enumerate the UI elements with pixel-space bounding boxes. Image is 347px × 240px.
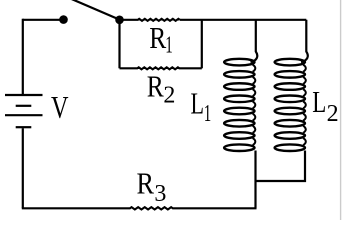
node A junction dot (switch left terminal) xyxy=(59,15,68,24)
wire node B vertical down to R2 branch xyxy=(118,20,120,69)
wire R2 branch to right vertical of parallel loop xyxy=(180,67,202,69)
battery plate long xyxy=(5,114,43,116)
battery V plates xyxy=(5,95,43,127)
wire: stroke group xyxy=(22,0,308,209)
battery plate short bottom xyxy=(16,126,32,128)
battery plate short xyxy=(16,105,32,107)
svg-text:R: R xyxy=(147,69,164,104)
svg-text:R: R xyxy=(149,20,166,55)
inductor L2 coil xyxy=(275,59,306,151)
svg-text:2: 2 xyxy=(163,83,175,109)
resistor R2 zigzag xyxy=(137,67,180,69)
inductor L1 coil xyxy=(224,59,255,151)
svg-text:1: 1 xyxy=(204,101,212,127)
wire L2 bottom lead and horizontal joining L1 lead xyxy=(256,151,306,182)
wire L1 top lead from top rail into coil xyxy=(251,20,258,62)
wire L2 top lead: top-right corner down into coil xyxy=(301,20,308,62)
wire top-left horizontal from left rail to switch terminal xyxy=(23,19,61,21)
svg-text:V: V xyxy=(51,89,69,125)
svg-text:2: 2 xyxy=(327,101,339,127)
resistor R1 zigzag xyxy=(137,19,180,21)
battery plate long top xyxy=(5,94,43,96)
wire R2 branch horizontal lead xyxy=(120,67,137,69)
wire bottom rail left of R3 xyxy=(22,207,128,209)
node B junction dot (switch right terminal) xyxy=(115,15,124,24)
svg-text:R: R xyxy=(137,165,155,200)
wire bottom rail right of R3 xyxy=(174,207,257,209)
wire left vertical rail (bottom) from battery to bottom rail xyxy=(22,128,24,208)
svg-text:3: 3 xyxy=(154,181,166,207)
border artifact line right edge xyxy=(340,0,342,220)
wire right vertical of R1/R2 parallel loop xyxy=(201,20,203,69)
resistor R3 zigzag xyxy=(128,207,174,209)
svg-text:L: L xyxy=(312,84,326,119)
switch blade (open) from top edge down to node B xyxy=(72,0,120,20)
wire top rail from R1 to top-right corner xyxy=(180,19,306,21)
svg-text:1: 1 xyxy=(165,33,173,59)
wire top rail from node B to R1 xyxy=(120,19,138,21)
wire L1 bottom lead down to bottom rail xyxy=(254,151,256,209)
wire left vertical rail (top) down to battery xyxy=(22,19,24,94)
svg-text:L: L xyxy=(191,85,205,120)
